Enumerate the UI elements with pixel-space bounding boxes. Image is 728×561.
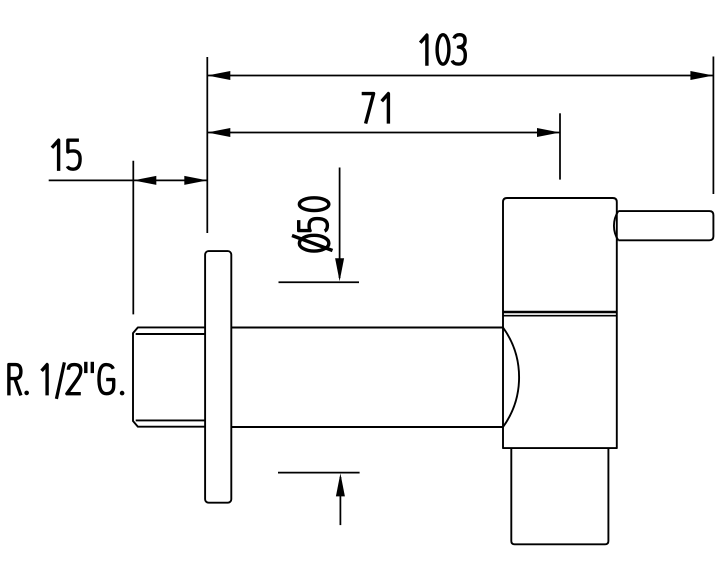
threaded nipple outline (133, 327, 207, 426)
body seam lower (503, 315, 617, 317)
dimension line 103 (207, 75, 713, 77)
extension line far-left (x=133, for 15 dim / nipple face) (132, 161, 134, 315)
nipple thread line bottom (136, 419, 207, 421)
extension line middle (x=560, for 71 dim) (559, 113, 561, 179)
arrowhead 103 left (207, 71, 230, 80)
label 103 (420, 35, 465, 66)
arrowhead 15 left (133, 176, 156, 185)
arrowhead 71 left (207, 128, 230, 137)
leader line O50 bottom (339, 477, 341, 525)
handle-body intersection arc (614, 211, 618, 240)
extension line left (x=207, for 103/71/15 dims) (206, 57, 208, 233)
tick line O50 bottom (278, 472, 360, 474)
arrowhead 15 right (184, 176, 207, 185)
pipe top edge (231, 327, 503, 329)
label R. 1/2"G. (9, 362, 124, 399)
spout (511, 448, 608, 544)
extension line right (x=713, for 103 dim / handle end) (712, 57, 714, 195)
label 15 (52, 140, 80, 171)
arrowhead O50 up (336, 473, 345, 496)
arrowhead 71 right (537, 128, 560, 137)
nipple thread line top (136, 333, 207, 335)
arrowhead O50 down (335, 258, 344, 281)
leader line O50 top (339, 168, 341, 279)
dimension line 71 (207, 132, 560, 134)
dimension line 15 (49, 179, 208, 181)
wall flange (205, 251, 231, 503)
valve body (503, 198, 617, 448)
arrowhead 103 right (690, 71, 713, 80)
handle lever (618, 211, 713, 240)
pipe bottom edge (231, 426, 503, 428)
pipe-body intersection arc (503, 328, 519, 428)
label O50 (rotated) (292, 198, 333, 251)
label 71 (362, 94, 389, 124)
tick line O50 top (279, 281, 360, 283)
body seam upper (thick) (503, 311, 617, 313)
